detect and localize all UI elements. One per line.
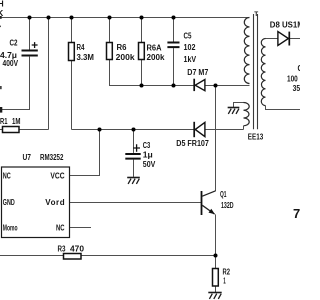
svg-text:Momo: Momo: [3, 224, 18, 233]
svg-text:VCC: VCC: [50, 172, 64, 181]
svg-text:Q1: Q1: [220, 190, 227, 199]
svg-text:Vord: Vord: [45, 198, 64, 207]
svg-text:470: 470: [70, 244, 85, 253]
svg-text:1: 1: [223, 276, 226, 285]
svg-text:C2: C2: [10, 39, 18, 48]
svg-text:R2: R2: [223, 267, 231, 276]
svg-text:T: T: [254, 11, 258, 18]
svg-text:C3: C3: [143, 141, 151, 150]
svg-text:100: 100: [287, 74, 298, 83]
svg-text:C: C: [298, 64, 301, 73]
svg-text:3.3M: 3.3M: [77, 53, 95, 62]
svg-text:R1: R1: [0, 117, 8, 126]
svg-text:400V: 400V: [3, 59, 19, 68]
svg-text:7: 7: [293, 206, 300, 221]
svg-text:GND: GND: [3, 198, 15, 207]
svg-text:132D: 132D: [221, 201, 234, 210]
svg-text:K: K: [0, 9, 4, 18]
svg-text:1μ: 1μ: [143, 151, 153, 160]
svg-text:R6: R6: [117, 43, 128, 52]
svg-text:H: H: [0, 0, 4, 9]
svg-text:R3: R3: [58, 244, 66, 253]
svg-text:D8 US1M: D8 US1M: [270, 20, 300, 29]
svg-text:50V: 50V: [143, 160, 156, 169]
svg-text:R6A: R6A: [147, 44, 162, 53]
svg-text:RM3252: RM3252: [40, 153, 64, 162]
svg-text:102: 102: [184, 43, 196, 52]
svg-text:R4: R4: [77, 43, 85, 52]
svg-text:D5 FR107: D5 FR107: [176, 139, 209, 148]
svg-text:200k: 200k: [116, 53, 136, 62]
svg-text:1kV: 1kV: [184, 55, 197, 64]
svg-text:C5: C5: [184, 31, 192, 40]
svg-text:D7 M7: D7 M7: [187, 68, 208, 77]
svg-text:EE13: EE13: [248, 132, 264, 141]
svg-text:NC: NC: [56, 224, 65, 233]
svg-text:200k: 200k: [147, 53, 166, 62]
svg-text:U7: U7: [23, 153, 32, 162]
svg-text:1M: 1M: [12, 117, 21, 126]
svg-text:NC: NC: [3, 172, 11, 181]
svg-text:35: 35: [293, 84, 300, 93]
